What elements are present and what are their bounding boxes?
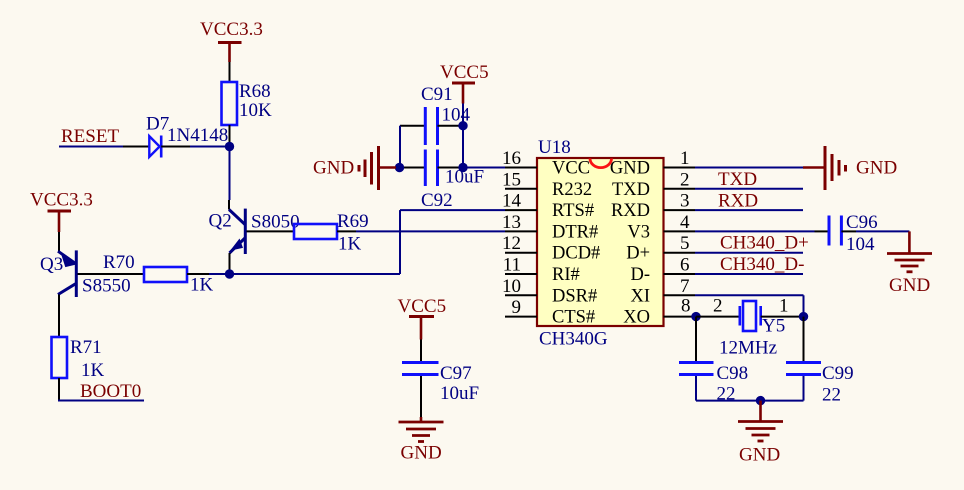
svg-text:12MHz: 12MHz (719, 338, 777, 359)
pin 3 RXD (611, 191, 695, 222)
wire pin 1 to GND (695, 167, 803, 169)
wire VCC3.3 to R68 (229, 62, 231, 82)
wire R70 to node (187, 273, 209, 275)
svg-text:DSR#: DSR# (552, 286, 597, 306)
svg-text:3: 3 (680, 191, 690, 212)
svg-text:RTS#: RTS# (552, 201, 594, 221)
pin 12 DCD# (502, 233, 600, 264)
svg-text:D-: D- (630, 265, 650, 285)
pin 2 TXD (612, 169, 695, 200)
wire Q3 base to R70 (78, 273, 145, 275)
wire pin 7 XI to crystal (695, 294, 804, 296)
wire C99 to GND rail (803, 376, 805, 401)
power VCC5 (top) (440, 62, 489, 104)
wire R68 to node (229, 125, 231, 147)
wire C98 to GND rail (695, 376, 697, 401)
wire VCC5 to C91 node (462, 104, 464, 126)
svg-text:GND: GND (610, 159, 650, 179)
svg-text:1N4148: 1N4148 (167, 125, 228, 146)
node GND rail junction (756, 396, 765, 405)
svg-text:RI#: RI# (552, 265, 580, 285)
svg-text:4: 4 (680, 212, 690, 233)
wire pin 6 D- (695, 273, 803, 275)
wire XO node to crystal (696, 316, 740, 318)
svg-text:R232: R232 (552, 180, 592, 200)
wire pin 5 D+ (695, 252, 803, 254)
svg-text:C97: C97 (440, 363, 472, 384)
svg-text:XI: XI (630, 286, 650, 306)
ground GND (left of C91/C92) (359, 146, 396, 190)
svg-text:10uF: 10uF (440, 383, 479, 404)
capacitor C97 (402, 363, 439, 375)
svg-text:1: 1 (680, 148, 690, 169)
wire pin 2 TXD (695, 188, 803, 190)
svg-text:10: 10 (502, 276, 521, 297)
svg-text:GND: GND (313, 158, 354, 179)
wire C91 corner left (399, 126, 401, 168)
svg-text:5: 5 (680, 233, 690, 254)
wire C92 node to pin 16 (463, 167, 505, 169)
wire node to Q2 collector (229, 147, 231, 201)
wire C96 to GND corner (856, 230, 909, 232)
transistor Q3 (58, 250, 76, 297)
svg-text:BOOT0: BOOT0 (80, 381, 141, 402)
svg-text:13: 13 (502, 212, 521, 233)
node C91/VCC5 junction (458, 121, 467, 130)
svg-text:CH340_D-: CH340_D- (720, 254, 804, 275)
wire VCC3.3 to Q3 emitter (58, 232, 60, 252)
wire C97 to GND (420, 376, 422, 417)
resistor R69 (294, 224, 337, 239)
wire VCC5 node down (462, 126, 464, 168)
wire pin 4 to C96 (695, 230, 815, 232)
svg-text:1: 1 (779, 296, 789, 317)
wire BOOT0 (58, 400, 144, 402)
svg-text:CH340_D+: CH340_D+ (720, 233, 809, 254)
node XI junction (799, 312, 808, 321)
wire Q2 base to R69 (247, 230, 295, 232)
resistor R68 (222, 82, 238, 125)
capacitor C99 (786, 363, 821, 375)
pin 16 VCC (502, 148, 590, 179)
svg-text:R70: R70 (103, 252, 135, 273)
node XO junction (691, 312, 700, 321)
svg-text:RXD: RXD (611, 201, 650, 221)
ground GND (C96) (887, 231, 932, 271)
node C92/pin16 junction (458, 163, 467, 172)
svg-text:7: 7 (680, 276, 690, 297)
IC U18 CH340G body (537, 158, 664, 326)
resistor R71 (52, 337, 68, 378)
svg-text:C92: C92 (421, 190, 453, 211)
pin 15 R232 (502, 169, 592, 200)
svg-text:CH340G: CH340G (539, 329, 608, 350)
svg-text:S8050: S8050 (251, 212, 300, 233)
svg-text:GND: GND (856, 158, 897, 179)
wire crystal to XI node (761, 316, 804, 318)
capacitor C91 (400, 107, 463, 145)
svg-text:2: 2 (713, 296, 723, 317)
svg-text:TXD: TXD (612, 180, 650, 200)
node GND/C92 junction (395, 163, 404, 172)
svg-text:14: 14 (502, 191, 522, 212)
svg-text:VCC5: VCC5 (440, 62, 489, 83)
wire XI node down to C99 (803, 317, 805, 361)
wire Q3 collector to R71 (58, 295, 60, 338)
wire Q2 emitter to node (229, 253, 231, 274)
svg-text:15: 15 (502, 169, 521, 190)
svg-text:2: 2 (680, 169, 690, 190)
svg-text:1K: 1K (338, 234, 362, 255)
pin 6 D- (630, 255, 695, 286)
svg-text:DCD#: DCD# (552, 244, 600, 264)
wire RESET to D7 anode (59, 146, 123, 148)
svg-text:V3: V3 (627, 222, 650, 242)
svg-text:GND: GND (401, 443, 442, 464)
wire XO node down to C98 (695, 317, 697, 361)
resistor R70 (144, 267, 187, 282)
wire node to RTS corner (230, 273, 401, 275)
ground GND (right of pin 1) (803, 146, 846, 190)
svg-text:XO: XO (623, 308, 650, 328)
svg-text:R69: R69 (337, 211, 369, 232)
svg-text:C91: C91 (421, 84, 453, 105)
transistor Q2 (229, 209, 245, 254)
svg-text:TXD: TXD (718, 169, 757, 190)
pin 4 V3 (627, 212, 695, 243)
capacitor C98 (679, 363, 714, 375)
power VCC5 (C97) (398, 296, 447, 340)
svg-text:VCC3.3: VCC3.3 (30, 190, 93, 211)
diode D7 (123, 136, 190, 158)
pin 10 DSR# (502, 276, 597, 307)
svg-text:S8550: S8550 (82, 276, 131, 297)
wire pin 3 RXD (695, 209, 803, 211)
svg-text:R68: R68 (239, 81, 271, 102)
svg-text:1K: 1K (81, 360, 105, 381)
wire VCC5 to C97 (420, 340, 422, 362)
wire R69 to pin 13 (337, 230, 356, 232)
svg-text:10K: 10K (239, 100, 272, 121)
pin 14 RTS# (502, 191, 594, 222)
svg-text:GND: GND (739, 445, 780, 466)
wire GND rail (696, 400, 804, 402)
svg-text:D+: D+ (626, 244, 650, 264)
svg-text:Q2: Q2 (209, 211, 232, 232)
ground GND (crystal) (738, 401, 783, 441)
pin 13 DTR# (502, 212, 598, 243)
pin 1 GND (610, 148, 695, 179)
pin 5 D+ (626, 233, 695, 264)
node RESET/R68/D7/Q2 junction (225, 142, 234, 151)
svg-text:22: 22 (822, 385, 841, 406)
svg-text:104: 104 (846, 234, 875, 255)
svg-text:VCC: VCC (552, 159, 590, 179)
svg-text:C99: C99 (822, 363, 854, 384)
svg-text:VCC3.3: VCC3.3 (200, 19, 263, 40)
svg-text:D7: D7 (146, 114, 169, 135)
svg-text:1K: 1K (190, 275, 214, 296)
svg-text:U18: U18 (538, 137, 571, 158)
capacitor C92 (400, 150, 463, 187)
node Q2 emitter / R70 / RTS junction (225, 269, 234, 278)
IC notch (590, 159, 612, 168)
svg-text:CTS#: CTS# (552, 308, 595, 328)
pin 8 XO (623, 296, 696, 328)
pin 11 RI# (503, 255, 580, 286)
svg-text:C98: C98 (717, 363, 749, 384)
svg-text:16: 16 (502, 148, 521, 169)
power VCC3.3 (top) (200, 19, 263, 62)
svg-text:C96: C96 (846, 212, 878, 233)
ground GND (C97) (399, 417, 444, 442)
capacitor C96 (829, 216, 856, 246)
pin 7 XI (630, 276, 695, 307)
wire R71 to BOOT0 (58, 378, 60, 401)
svg-text:12: 12 (502, 233, 521, 254)
crystal Y5 (740, 301, 761, 331)
svg-text:VCC5: VCC5 (398, 296, 447, 317)
svg-text:Q3: Q3 (40, 254, 63, 275)
pin 9 CTS# (505, 297, 595, 328)
power VCC3.3 (Q3) (30, 190, 93, 233)
svg-text:DTR#: DTR# (552, 222, 598, 242)
svg-text:RESET: RESET (61, 126, 119, 147)
svg-text:11: 11 (503, 255, 521, 276)
wire D7 cathode to node (190, 146, 230, 148)
svg-text:8: 8 (681, 296, 691, 317)
svg-text:9: 9 (512, 297, 522, 318)
svg-text:6: 6 (680, 255, 690, 276)
svg-text:R71: R71 (70, 337, 102, 358)
svg-text:Y5: Y5 (762, 316, 785, 337)
svg-text:GND: GND (889, 275, 930, 296)
svg-text:RXD: RXD (718, 191, 758, 212)
